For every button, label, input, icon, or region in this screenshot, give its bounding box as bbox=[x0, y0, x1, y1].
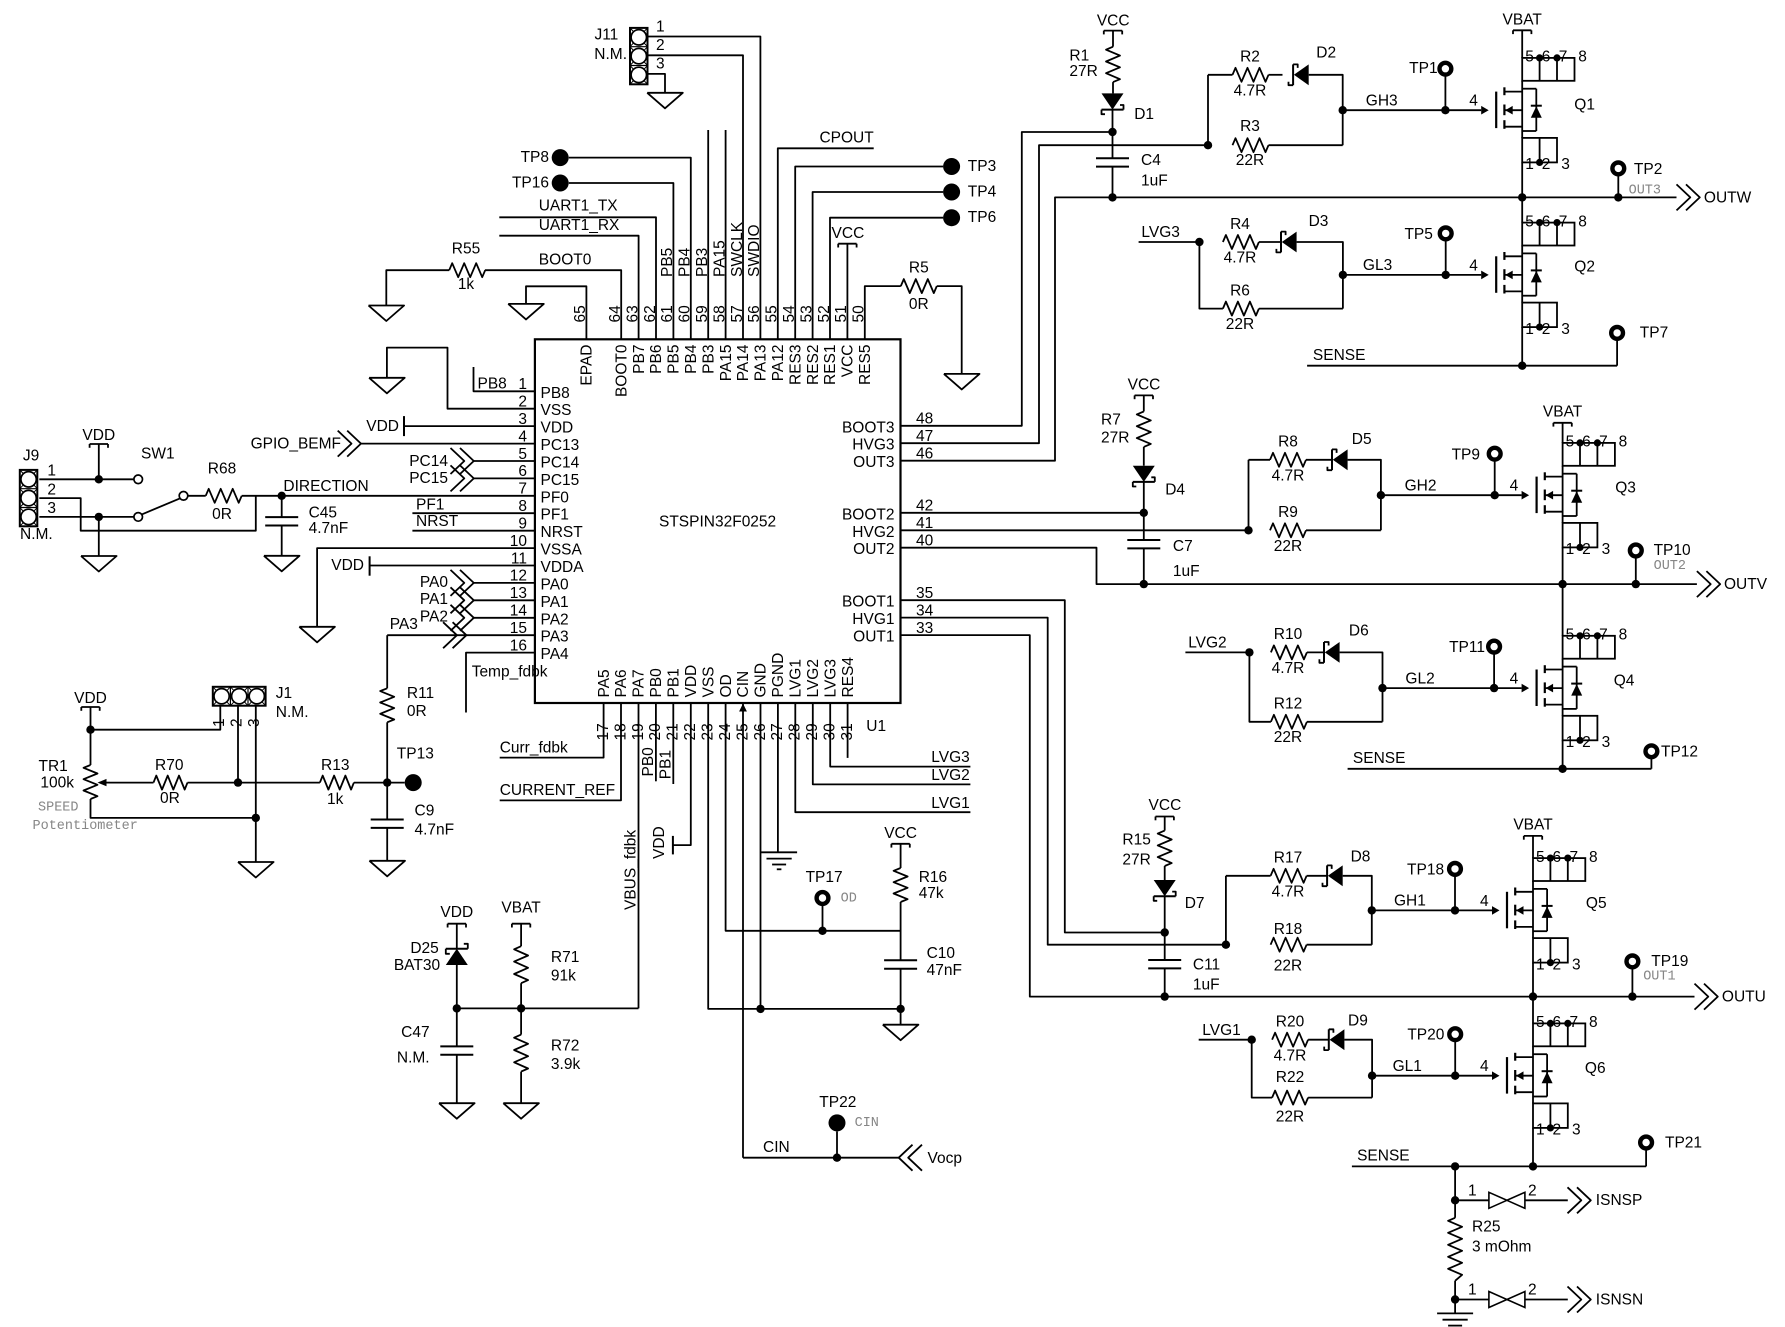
svg-text:1: 1 bbox=[1525, 321, 1534, 338]
svg-text:PC14: PC14 bbox=[541, 455, 580, 472]
svg-text:5: 5 bbox=[1566, 434, 1575, 451]
svg-text:GL2: GL2 bbox=[1405, 670, 1434, 687]
svg-text:OUTV: OUTV bbox=[1724, 576, 1768, 593]
wire R6 to right node bbox=[1259, 308, 1343, 310]
node PF1 label bbox=[416, 496, 444, 513]
wire GH3 bbox=[1343, 106, 1482, 114]
transistor Q2 package bottom bbox=[1522, 303, 1570, 338]
U1 pin 23 (VSS) name and number bbox=[700, 666, 718, 740]
testpoint TP20 bbox=[1407, 1027, 1461, 1076]
svg-text:4: 4 bbox=[1469, 257, 1478, 274]
svg-text:NRST: NRST bbox=[541, 524, 584, 541]
svg-text:GH1: GH1 bbox=[1394, 893, 1426, 910]
svg-text:N.M.: N.M. bbox=[594, 46, 627, 63]
svg-text:C7: C7 bbox=[1173, 538, 1193, 555]
svg-text:BOOT1: BOOT1 bbox=[842, 594, 895, 611]
node GL3 label bbox=[1363, 257, 1392, 274]
node GH1 label bbox=[1394, 893, 1426, 910]
svg-text:VCC: VCC bbox=[1128, 376, 1161, 393]
svg-text:D4: D4 bbox=[1165, 482, 1185, 499]
diode D1 bbox=[1102, 93, 1155, 123]
svg-text:OUTW: OUTW bbox=[1704, 189, 1752, 206]
svg-text:4.7R: 4.7R bbox=[1234, 83, 1267, 100]
svg-text:Curr_fdbk: Curr_fdbk bbox=[500, 739, 568, 756]
svg-text:PB5: PB5 bbox=[659, 248, 676, 277]
svg-text:LVG3: LVG3 bbox=[822, 659, 839, 698]
resistor R15 bbox=[1122, 831, 1171, 869]
svg-text:5: 5 bbox=[1536, 849, 1545, 866]
node Q3 gate pin number bbox=[1510, 478, 1519, 495]
svg-text:CPOUT: CPOUT bbox=[819, 130, 874, 147]
svg-text:U1: U1 bbox=[866, 718, 886, 735]
svg-text:5: 5 bbox=[1525, 213, 1534, 230]
power VCC at pin51 bbox=[832, 225, 865, 339]
wire GL2 bbox=[1383, 684, 1522, 692]
U1 pin 59 (PB3) name and number bbox=[694, 305, 717, 374]
svg-text:3: 3 bbox=[1572, 1122, 1581, 1139]
connector J1 bbox=[213, 687, 266, 706]
wire R4 to D3 bbox=[1259, 241, 1281, 243]
switch SW1 bbox=[134, 446, 188, 522]
wire PB5 pin61 to TP16 bbox=[569, 183, 674, 339]
svg-text:TP17: TP17 bbox=[806, 869, 843, 886]
svg-text:1: 1 bbox=[1525, 156, 1534, 173]
svg-text:Q2: Q2 bbox=[1574, 258, 1595, 275]
resistor R2 bbox=[1233, 49, 1269, 100]
transistor Q4 bbox=[1522, 659, 1635, 716]
svg-text:5: 5 bbox=[1525, 49, 1534, 66]
svg-text:5: 5 bbox=[1536, 1014, 1545, 1031]
transistor Q1 bbox=[1481, 81, 1595, 138]
svg-text:EPAD: EPAD bbox=[579, 345, 596, 386]
svg-text:OUT1: OUT1 bbox=[853, 629, 894, 646]
svg-text:1uF: 1uF bbox=[1141, 172, 1168, 189]
node SPEED Potentiometer note bbox=[33, 800, 138, 834]
U1 pin 28 (LVG1) name and number bbox=[787, 659, 805, 741]
wire Q6 drain from OUTU bbox=[1532, 997, 1534, 1024]
svg-text:SENSE: SENSE bbox=[1313, 347, 1366, 364]
svg-text:LVG1: LVG1 bbox=[788, 659, 805, 698]
resistor R68 bbox=[206, 461, 242, 523]
svg-text:PA12: PA12 bbox=[770, 345, 787, 382]
U1 pin 1 (PB8) name and number bbox=[518, 376, 569, 402]
wire TR1 bottom to ground rail bbox=[91, 799, 256, 818]
svg-text:7: 7 bbox=[1599, 434, 1608, 451]
svg-text:UART1_RX: UART1_RX bbox=[539, 217, 620, 234]
svg-text:2: 2 bbox=[47, 481, 56, 498]
wire R8 left node bbox=[1249, 460, 1271, 531]
svg-text:TP7: TP7 bbox=[1640, 324, 1668, 341]
testpoint TP18 bbox=[1407, 861, 1461, 910]
svg-text:TP19: TP19 bbox=[1651, 953, 1688, 970]
svg-text:6: 6 bbox=[1542, 49, 1551, 66]
node GL2 label bbox=[1405, 670, 1434, 687]
svg-text:TP13: TP13 bbox=[397, 746, 434, 763]
svg-text:LVG3: LVG3 bbox=[931, 749, 970, 766]
svg-text:2: 2 bbox=[1528, 1282, 1537, 1299]
svg-text:C9: C9 bbox=[415, 802, 435, 819]
svg-text:CIN: CIN bbox=[763, 1139, 790, 1156]
U1 pin 41 (HVG2) name and number bbox=[852, 515, 933, 541]
connector J11 bbox=[630, 28, 648, 84]
svg-text:PA1: PA1 bbox=[541, 594, 569, 611]
svg-text:TP8: TP8 bbox=[521, 149, 549, 166]
svg-text:VBAT: VBAT bbox=[1503, 11, 1543, 28]
power VBAT at R71 bbox=[501, 900, 541, 947]
U1 pin 29 (LVG2) name and number bbox=[804, 659, 822, 741]
svg-text:1: 1 bbox=[1566, 541, 1575, 558]
svg-text:PA1: PA1 bbox=[420, 591, 448, 608]
wire J1 pin3 to ground rail bbox=[252, 706, 260, 822]
wire BOOT1 pin35 to D7 bbox=[901, 600, 1169, 937]
wire HVG1 pin34 to R17 R18 bbox=[901, 618, 1231, 949]
svg-text:PA14: PA14 bbox=[735, 344, 752, 381]
U1 pin 17 (PA5) name and number bbox=[595, 669, 613, 740]
wire D8 to right node bbox=[1343, 876, 1376, 945]
svg-text:D6: D6 bbox=[1349, 623, 1369, 640]
svg-text:RES1: RES1 bbox=[822, 345, 839, 386]
svg-text:4: 4 bbox=[1510, 478, 1519, 495]
U1 pin 64 (BOOT0) name and number bbox=[607, 305, 630, 397]
svg-text:PF1: PF1 bbox=[416, 496, 444, 513]
wire VSSA pin10 to ground bbox=[317, 548, 535, 627]
U1 pin 30 (LVG3) name and number bbox=[822, 659, 840, 741]
svg-text:VSS: VSS bbox=[541, 402, 572, 419]
resistor R4 bbox=[1223, 216, 1259, 267]
U1 pin 14 (PA2) name and number bbox=[510, 603, 569, 629]
svg-text:RES3: RES3 bbox=[787, 345, 804, 386]
U1 pin 63 (PB7) name and number bbox=[624, 305, 647, 374]
transistor Q5 package bottom bbox=[1533, 938, 1581, 973]
wire R8 to D5 bbox=[1306, 459, 1332, 461]
node GH2 label bbox=[1405, 477, 1437, 494]
wire Q2 source to SENSE bbox=[1518, 327, 1526, 370]
resistor R1 bbox=[1069, 47, 1120, 82]
U1 pin 21 (PB1) name and number bbox=[665, 668, 683, 740]
resistor R72 bbox=[514, 1035, 580, 1073]
wire rail ground stub bbox=[900, 1009, 902, 1025]
wire BOOT1 junction to C11 bbox=[1164, 933, 1166, 961]
svg-text:VDD: VDD bbox=[331, 557, 364, 574]
node LVG1 label bbox=[931, 795, 970, 812]
power VDD at D25 bbox=[440, 904, 473, 949]
svg-text:LVG3: LVG3 bbox=[1141, 224, 1180, 241]
node SENSE label phase V bbox=[1353, 750, 1406, 767]
node OUTU flag bbox=[1695, 984, 1766, 1010]
node BOOT0 label bbox=[539, 252, 592, 269]
wire TR1 wiper to R70 bbox=[110, 782, 154, 784]
svg-text:PA3: PA3 bbox=[390, 616, 418, 633]
svg-text:HVG1: HVG1 bbox=[852, 611, 894, 628]
svg-text:R18: R18 bbox=[1274, 921, 1302, 938]
svg-text:PB8: PB8 bbox=[478, 375, 507, 392]
wire Q4 drain from OUTV bbox=[1562, 584, 1564, 636]
diode D3 bbox=[1276, 213, 1328, 252]
wire BOOT2 pin42 to D4 bbox=[901, 509, 1149, 517]
node ISNSP jumper pin numbers bbox=[1468, 1182, 1537, 1199]
wire R13 to TP13 bbox=[354, 778, 405, 786]
svg-text:VBAT: VBAT bbox=[501, 900, 541, 917]
wire Q4 source to SENSE bbox=[1558, 740, 1566, 773]
svg-text:OD: OD bbox=[841, 891, 857, 906]
svg-text:SWDIO: SWDIO bbox=[746, 224, 763, 277]
svg-text:SENSE: SENSE bbox=[1357, 1147, 1410, 1164]
svg-text:22R: 22R bbox=[1236, 152, 1264, 169]
resistor R8 bbox=[1270, 434, 1306, 485]
svg-text:R2: R2 bbox=[1240, 49, 1260, 66]
wire PA3 pin15 bbox=[387, 634, 535, 636]
svg-text:N.M.: N.M. bbox=[276, 704, 309, 721]
svg-text:J1: J1 bbox=[276, 685, 292, 702]
U1 pin 57 (PA14) name and number bbox=[729, 305, 752, 381]
svg-text:27R: 27R bbox=[1101, 430, 1129, 447]
node CPOUT label bbox=[819, 130, 874, 147]
node NRST label bbox=[416, 513, 459, 530]
svg-text:4.7R: 4.7R bbox=[1272, 660, 1305, 677]
testpoint TP10 bbox=[1630, 542, 1691, 584]
wire SWDIO pin56 to J11 pin1 bbox=[648, 37, 761, 340]
U1 pin 11 (VDDA) name and number bbox=[511, 550, 584, 576]
node PC14 flag bbox=[409, 448, 474, 474]
wire VSS pin23 to bottom rail bbox=[708, 703, 905, 1013]
svg-text:TP9: TP9 bbox=[1452, 446, 1480, 463]
svg-text:R5: R5 bbox=[909, 260, 929, 277]
svg-text:R12: R12 bbox=[1274, 695, 1302, 712]
capacitor C47 bbox=[397, 1008, 473, 1066]
svg-text:Q6: Q6 bbox=[1585, 1060, 1606, 1077]
svg-text:1k: 1k bbox=[458, 276, 475, 293]
resistor R22 bbox=[1272, 1069, 1308, 1126]
svg-text:3: 3 bbox=[47, 500, 56, 517]
svg-text:8: 8 bbox=[1589, 849, 1598, 866]
svg-text:PA13: PA13 bbox=[753, 345, 770, 382]
wire R71 to junction bbox=[520, 983, 522, 1008]
node Curr_fdbk label bbox=[500, 739, 568, 756]
svg-text:PB0: PB0 bbox=[648, 668, 665, 698]
wire R22 branch bbox=[1252, 1040, 1272, 1098]
testpoint TP1 bbox=[1409, 60, 1451, 110]
svg-text:PC15: PC15 bbox=[541, 472, 580, 489]
node ISNSP flag bbox=[1568, 1187, 1643, 1213]
svg-text:1: 1 bbox=[656, 19, 665, 36]
node VDD label pin3 bbox=[366, 418, 399, 435]
resistor R7 bbox=[1101, 412, 1151, 447]
svg-text:PA2: PA2 bbox=[541, 611, 569, 628]
wire J9 pin2 bottom route bbox=[39, 496, 256, 531]
svg-text:2: 2 bbox=[1528, 1182, 1537, 1199]
wire R22 to right node bbox=[1308, 1097, 1372, 1099]
wire C4 to OUTW row bbox=[1112, 167, 1114, 198]
wire J11 pin3 to ground bbox=[648, 74, 666, 93]
svg-text:Temp_fdbk: Temp_fdbk bbox=[472, 663, 548, 680]
U1 pin 18 (PA6) name and number bbox=[612, 669, 630, 740]
svg-text:R7: R7 bbox=[1101, 412, 1121, 429]
U1 pin 26 (GND) name and number bbox=[752, 663, 770, 740]
testpoint TP13 bbox=[397, 746, 434, 792]
wire SWCLK pin57 to J11 pin2 bbox=[648, 55, 744, 339]
svg-text:D3: D3 bbox=[1309, 213, 1329, 230]
node J1 pin numbers bbox=[211, 718, 263, 727]
svg-text:4: 4 bbox=[1510, 671, 1519, 688]
svg-text:1: 1 bbox=[211, 718, 228, 727]
svg-text:GH2: GH2 bbox=[1405, 477, 1437, 494]
svg-text:1uF: 1uF bbox=[1193, 976, 1220, 993]
resistor R3 bbox=[1233, 118, 1269, 169]
svg-text:PA3: PA3 bbox=[541, 629, 569, 646]
transistor Q3 bbox=[1522, 466, 1636, 523]
svg-text:VDD: VDD bbox=[366, 418, 399, 435]
U1 pin 54 (RES3) name and number bbox=[781, 305, 804, 385]
wire CURRENT_REF pin18 bbox=[500, 703, 621, 800]
U1 pin 27 (PGND) name and number bbox=[769, 653, 787, 741]
svg-text:1uF: 1uF bbox=[1173, 563, 1200, 580]
wire RES4 pin31 stub bbox=[847, 703, 849, 758]
U1 pin 5 (PC14) name and number bbox=[518, 446, 579, 472]
wire J1 pin1 to VDD bbox=[91, 706, 221, 730]
U1 pin 8 (PF1) name and number bbox=[518, 498, 569, 524]
svg-text:J9: J9 bbox=[23, 448, 39, 465]
svg-text:VDDA: VDDA bbox=[541, 559, 585, 576]
node Q4 gate pin number bbox=[1510, 671, 1519, 688]
svg-text:PA5: PA5 bbox=[596, 669, 613, 697]
svg-text:R3: R3 bbox=[1240, 118, 1260, 135]
svg-text:TP2: TP2 bbox=[1634, 161, 1662, 178]
wire GL1 bbox=[1372, 1072, 1492, 1080]
svg-text:22R: 22R bbox=[1274, 538, 1302, 555]
svg-text:GPIO_BEMF: GPIO_BEMF bbox=[251, 435, 341, 452]
svg-text:0R: 0R bbox=[160, 790, 180, 807]
svg-text:7: 7 bbox=[1570, 849, 1579, 866]
wire R16 to OD row bbox=[900, 902, 902, 960]
svg-text:PA0: PA0 bbox=[420, 574, 449, 591]
svg-text:Q5: Q5 bbox=[1586, 895, 1607, 912]
U1 pin 33 (OUT1) name and number bbox=[853, 620, 933, 646]
svg-text:R4: R4 bbox=[1230, 216, 1250, 233]
transistor Q2 bbox=[1481, 246, 1595, 303]
svg-text:R8: R8 bbox=[1278, 434, 1298, 451]
node PA3 flag bbox=[390, 616, 467, 648]
svg-text:R71: R71 bbox=[551, 949, 579, 966]
node OUT1 gray label bbox=[1643, 969, 1675, 984]
svg-text:1: 1 bbox=[1468, 1282, 1477, 1299]
U1 pin 61 (PB5) name and number bbox=[659, 305, 682, 374]
wire R12 branch bbox=[1249, 652, 1271, 721]
svg-text:TR1: TR1 bbox=[39, 758, 68, 775]
svg-text:4.7R: 4.7R bbox=[1274, 1047, 1307, 1064]
testpoint TP8 bbox=[521, 149, 569, 166]
svg-text:3: 3 bbox=[246, 718, 263, 727]
U1 pin 48 (BOOT3) name and number bbox=[842, 411, 933, 437]
wire SENSE to ISNSP junction bbox=[1451, 1166, 1459, 1204]
wire R3 to right node bbox=[1269, 144, 1343, 146]
wire D9 to right node bbox=[1344, 1040, 1376, 1098]
wire SENSE phase W bbox=[1307, 365, 1617, 367]
power VCC phase W bbox=[1097, 13, 1130, 47]
U1 pin 13 (PA1) name and number bbox=[510, 585, 569, 611]
svg-text:TP18: TP18 bbox=[1407, 861, 1444, 878]
transistor Q4 package top bbox=[1563, 627, 1628, 659]
svg-text:ISNSN: ISNSN bbox=[1596, 1291, 1643, 1308]
wire HVG3 pin47 to R2 R3 bbox=[901, 141, 1213, 443]
node OUTV flag bbox=[1697, 571, 1768, 597]
svg-text:27R: 27R bbox=[1122, 852, 1150, 869]
wire SW1 common to R68 bbox=[188, 495, 206, 497]
U1 pin 4 (PC13) name and number bbox=[518, 428, 579, 454]
wire R12 to right node bbox=[1307, 721, 1383, 723]
node PB5 rotated label bbox=[659, 248, 676, 277]
node PA2 flag bbox=[420, 605, 474, 631]
svg-text:OUT2: OUT2 bbox=[853, 541, 894, 558]
ground C10 rail bbox=[883, 1025, 919, 1041]
wire SENSE phase U bbox=[1352, 1162, 1646, 1170]
svg-text:PA6: PA6 bbox=[613, 669, 630, 697]
svg-text:R9: R9 bbox=[1278, 504, 1298, 521]
svg-text:8: 8 bbox=[1589, 1014, 1598, 1031]
svg-text:VDD: VDD bbox=[82, 427, 115, 444]
diode D7 bbox=[1154, 880, 1205, 912]
wire D4 to BOOT2 junction bbox=[1143, 482, 1145, 513]
wire R17 to D8 bbox=[1307, 875, 1328, 877]
node LVG3 label phase W bbox=[1139, 224, 1204, 246]
U1 pin 55 (PA12) name and number bbox=[764, 305, 787, 381]
svg-text:Potentiometer: Potentiometer bbox=[33, 819, 138, 834]
wire PB4 pin60 to TP8 bbox=[569, 158, 691, 340]
net-tie jumper ISNSN bbox=[1489, 1292, 1525, 1308]
node OUTW flag bbox=[1677, 184, 1752, 210]
svg-text:PB1: PB1 bbox=[666, 668, 683, 697]
svg-text:TP5: TP5 bbox=[1404, 226, 1432, 243]
wire D7 to BOOT1 junction bbox=[1164, 896, 1166, 932]
svg-text:Q1: Q1 bbox=[1574, 96, 1595, 113]
wire Q1 source to OUTW row bbox=[1518, 162, 1526, 201]
U1 pin 35 (BOOT1) name and number bbox=[842, 585, 933, 611]
svg-text:3: 3 bbox=[1602, 734, 1611, 751]
node CIN label bbox=[763, 1139, 790, 1156]
svg-text:R6: R6 bbox=[1230, 283, 1250, 300]
wire BOOT0 pin64 bbox=[485, 270, 621, 339]
wire C47 to ground bbox=[456, 1055, 458, 1103]
wire LVG1 pin28 bbox=[795, 703, 970, 812]
svg-text:VCC: VCC bbox=[1149, 797, 1182, 814]
wire R5 to ground bbox=[937, 286, 962, 374]
node PA0 flag bbox=[420, 570, 474, 596]
svg-text:8: 8 bbox=[1578, 49, 1587, 66]
svg-text:PB8: PB8 bbox=[541, 385, 570, 402]
wire VDD pin3 bbox=[404, 425, 535, 427]
U1 pin 58 (PA15) name and number bbox=[711, 305, 734, 381]
svg-text:7: 7 bbox=[1599, 627, 1608, 644]
svg-text:TP6: TP6 bbox=[968, 209, 996, 226]
wire Q2 drain from OUTW bbox=[1521, 197, 1523, 222]
wire ISNSP row bbox=[1455, 1199, 1489, 1201]
wire PB0 pin20 stub bbox=[655, 703, 657, 781]
svg-text:VDD: VDD bbox=[651, 826, 668, 859]
ground C45 bbox=[264, 556, 300, 572]
wire J1 pin2 to wiper bbox=[234, 706, 242, 787]
node OD gray label bbox=[841, 891, 857, 906]
svg-text:22R: 22R bbox=[1226, 316, 1254, 333]
svg-text:R22: R22 bbox=[1276, 1069, 1304, 1086]
U1 pin 65 (EPAD) name and number bbox=[572, 305, 595, 385]
diode D8 bbox=[1323, 848, 1371, 886]
transistor Q6 bbox=[1492, 1046, 1606, 1103]
svg-text:1: 1 bbox=[1536, 1122, 1545, 1139]
svg-text:LVG1: LVG1 bbox=[1202, 1022, 1241, 1039]
U1 pin 51 (VCC) name and number bbox=[833, 305, 856, 377]
node SWDIO rotated label bbox=[746, 224, 763, 277]
svg-text:1: 1 bbox=[1536, 956, 1545, 973]
svg-text:R16: R16 bbox=[919, 869, 947, 886]
